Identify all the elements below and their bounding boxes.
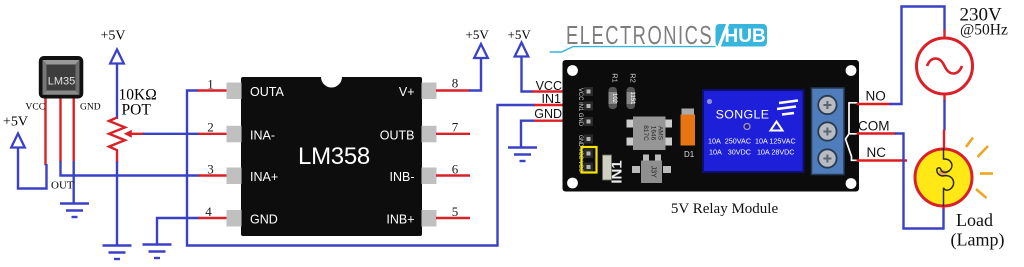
- pin number 6: [452, 162, 459, 177]
- svg-text:1646: 1646: [650, 126, 657, 141]
- svg-text:LM358: LM358: [298, 143, 370, 170]
- silk text IN1 (vertical): [609, 160, 626, 183]
- wire GND pin4 to ground (blue): [157, 218, 200, 244]
- optocoupler 817C: [627, 117, 673, 151]
- pin label OUTA: [250, 85, 284, 99]
- svg-text:GND: GND: [80, 103, 101, 113]
- op-amp LM358 body: [241, 77, 422, 236]
- lamp rays: [966, 138, 993, 199]
- label VCC (module pin): [536, 79, 562, 93]
- svg-text:D1: D1: [684, 150, 695, 159]
- power +5V arrow (relay VCC): [515, 43, 529, 57]
- svg-text:7: 7: [452, 120, 459, 135]
- pin label INA+: [250, 170, 278, 184]
- svg-text:J3Y: J3Y: [650, 166, 657, 178]
- pin pad 1: [227, 83, 242, 100]
- mounting hole top-right: [846, 65, 857, 76]
- ground (relay): [508, 148, 537, 162]
- label OUT: [51, 180, 74, 192]
- svg-text:4: 4: [205, 204, 212, 219]
- pin number 8: [452, 76, 459, 91]
- power +5V arrow (left): [11, 134, 25, 148]
- relay label SONGLE: [716, 108, 770, 122]
- svg-text:3: 3: [207, 162, 214, 177]
- pin number 5: [452, 204, 459, 219]
- wire pin5 stub (red): [436, 217, 470, 219]
- wire NO (red): [857, 103, 891, 105]
- svg-text:+5V: +5V: [466, 27, 490, 42]
- header pin IN1: [584, 102, 593, 111]
- svg-text:102: 102: [611, 93, 617, 104]
- svg-text:INB-: INB-: [390, 170, 415, 184]
- header pin aux2: [584, 149, 593, 158]
- label LM358: [298, 143, 370, 170]
- wire OUTA loop to IN1 (blue): [187, 91, 535, 246]
- diode D1 (orange): [681, 109, 696, 160]
- pin pad 3: [227, 168, 242, 185]
- LM35 sensor body: [39, 56, 84, 99]
- svg-text:POT: POT: [122, 102, 152, 119]
- wire +5V to relay VCC (blue then red): [522, 56, 587, 92]
- label +5V (pin8): [466, 27, 490, 42]
- svg-text:VCC IN1 GND: VCC IN1 GND: [577, 88, 584, 126]
- pin pad 4: [227, 210, 242, 227]
- svg-text:R1: R1: [611, 73, 620, 83]
- svg-text:SONGLE: SONGLE: [716, 108, 770, 122]
- ground (LM358 GND): [143, 245, 172, 259]
- wire pin4 stub (red): [199, 217, 229, 219]
- wire pin8 stub to +5V (red then blue): [436, 57, 481, 91]
- potentiometer 10K (zigzag): [109, 118, 144, 164]
- pin label INB+: [386, 213, 414, 227]
- svg-text:HUB: HUB: [725, 26, 766, 47]
- ground (LM35): [60, 204, 89, 218]
- resistor R1: [609, 73, 620, 109]
- mounting hole top-left: [567, 65, 578, 76]
- header pin GND: [584, 117, 593, 126]
- svg-text:INA-: INA-: [250, 128, 275, 142]
- svg-text:1151: 1151: [629, 92, 635, 106]
- relay logo triangle: [771, 122, 783, 131]
- wire +5V to VCC (blue): [18, 147, 47, 189]
- svg-text:5V Relay Module: 5V Relay Module: [671, 201, 779, 217]
- svg-text:LM35: LM35: [48, 76, 76, 88]
- svg-text:10A 30VDC 10A 28VDC: 10A 30VDC 10A 28VDC: [709, 148, 795, 157]
- label NC: [867, 145, 887, 160]
- svg-text:NC: NC: [867, 145, 887, 160]
- lamp load: [915, 148, 972, 207]
- relay module PCB: [563, 60, 860, 192]
- SECTION: relay module: [534, 60, 907, 217]
- wire pin1 stub (red): [198, 89, 229, 91]
- connector white strip: [603, 155, 612, 180]
- svg-text:Load: Load: [956, 210, 993, 230]
- label +5V (left): [3, 115, 28, 130]
- svg-text:IN1: IN1: [542, 92, 562, 106]
- silk text GND VCC VCC (vertical): [577, 135, 584, 172]
- svg-text:OUTB: OUTB: [380, 128, 415, 142]
- svg-text:817C: 817C: [642, 125, 649, 141]
- svg-text:1: 1: [207, 77, 214, 92]
- wire pot bottom to ground (blue): [116, 162, 118, 246]
- SECTION: logo: [550, 21, 768, 52]
- yellow highlight box: [582, 147, 597, 173]
- pin label INA-: [250, 128, 275, 142]
- svg-text:2: 2: [207, 120, 214, 135]
- wire pin3 stub (red): [199, 174, 229, 176]
- wire NC (red): [857, 159, 908, 161]
- wire COM to lamp (blue): [895, 134, 944, 229]
- svg-text:INB+: INB+: [386, 213, 414, 227]
- pin label OUTB: [380, 128, 415, 142]
- svg-text:OUT: OUT: [51, 180, 74, 192]
- label IN1 (module pin): [542, 92, 562, 106]
- svg-text:GND: GND: [534, 107, 562, 121]
- svg-text:NO: NO: [866, 89, 886, 104]
- wire AC source top stub (red): [943, 30, 945, 39]
- svg-text:R2: R2: [629, 73, 638, 83]
- SECTION: load area: [890, 5, 1008, 251]
- SECTION: LM358: [143, 27, 587, 258]
- label 230V @50Hz: [960, 5, 1008, 39]
- svg-text:V+: V+: [399, 85, 415, 99]
- svg-text:8: 8: [452, 76, 459, 91]
- pin number 1: [207, 77, 214, 92]
- logo HUB box: [716, 24, 768, 47]
- label COM: [858, 119, 890, 134]
- wire relay GND to ground (blue then red): [521, 121, 586, 147]
- pin number 2: [207, 120, 214, 135]
- svg-text:@50Hz: @50Hz: [960, 22, 1008, 39]
- wire LM35 GND pin (red): [72, 97, 74, 162]
- pin pad 7: [422, 126, 437, 143]
- relay ratings text: [708, 137, 796, 157]
- wire GND pin to ground (blue): [72, 161, 74, 203]
- pin pad 2: [227, 126, 242, 143]
- pin number 3: [207, 162, 214, 177]
- resistor R2: [627, 73, 638, 109]
- svg-text:INA+: INA+: [250, 170, 278, 184]
- label GND (LM35 pin): [80, 103, 101, 113]
- label VCC (LM35 pin): [26, 103, 46, 113]
- wire pot wiper to INA- (blue): [143, 133, 200, 135]
- mounting hole bottom-right: [846, 178, 857, 189]
- silk text VCC IN1 GND (vertical): [577, 88, 584, 126]
- AC source 230V: [917, 38, 973, 94]
- svg-text:10A 250VAC 10A 125VAC: 10A 250VAC 10A 125VAC: [708, 137, 796, 146]
- pin label INB-: [390, 170, 415, 184]
- label LM35: [48, 76, 76, 88]
- svg-text:+5V: +5V: [3, 115, 28, 130]
- logo underline: [550, 47, 716, 52]
- pin pad 5: [422, 210, 437, 227]
- wire AC to lamp (red-blue-red): [944, 94, 945, 209]
- svg-text:5: 5: [452, 204, 459, 219]
- SECTION: left sensor area: [3, 29, 200, 260]
- svg-text:6: 6: [452, 162, 459, 177]
- label Load (Lamp): [951, 210, 1005, 251]
- relay SONGLE (blue): [703, 90, 804, 172]
- relay logo bars: [777, 101, 798, 115]
- transistor J3Y: [632, 155, 671, 184]
- logo text ELECTRONICS: [566, 21, 713, 50]
- pin label V+: [399, 85, 415, 99]
- svg-text:VCC: VCC: [26, 103, 46, 113]
- svg-text:GND: GND: [250, 213, 278, 227]
- wire pin2 stub (red): [199, 133, 229, 135]
- label +5V (relay VCC): [508, 27, 532, 42]
- pin pad 8: [422, 83, 437, 100]
- svg-text:ELECTRONICS: ELECTRONICS: [566, 21, 713, 50]
- mounting hole bottom-left: [567, 178, 578, 189]
- header pin aux3: [584, 163, 593, 172]
- wire LM35 OUT pin (red): [59, 97, 61, 162]
- svg-text:+5V: +5V: [101, 29, 126, 44]
- wire pin7 stub (red): [436, 133, 470, 135]
- power +5V arrow (pot): [110, 50, 124, 64]
- ground (pot): [103, 246, 132, 260]
- caption 5V Relay Module: [671, 201, 779, 217]
- wire COM (red): [857, 132, 897, 134]
- label GND (module pin): [534, 107, 562, 121]
- pin number 4: [205, 204, 212, 219]
- svg-text:OUTA: OUTA: [250, 85, 284, 99]
- power +5V arrow (pin8): [474, 44, 488, 58]
- wire +5V to pot (blue): [116, 63, 118, 119]
- label 10K POT: [119, 87, 157, 119]
- relay contact symbol (white on board): [846, 103, 858, 161]
- wire pin6 stub (red): [436, 174, 470, 176]
- label +5V (pot): [101, 29, 126, 44]
- wire OUT to INA+ (blue): [61, 161, 200, 176]
- terminal block: [812, 88, 845, 175]
- svg-text:+5V: +5V: [508, 27, 532, 42]
- wire NO to AC source (blue): [890, 7, 945, 105]
- svg-text:AMS: AMS: [657, 126, 664, 141]
- header pin VCC: [584, 87, 593, 96]
- label NO: [866, 89, 886, 104]
- pin pad 6: [422, 168, 437, 185]
- svg-text:(Lamp): (Lamp): [951, 230, 1005, 251]
- pin number 7: [452, 120, 459, 135]
- pin label GND: [250, 213, 278, 227]
- header pin aux1: [584, 135, 593, 144]
- svg-text:COM: COM: [858, 119, 890, 134]
- wire IN1 (red part): [534, 104, 586, 106]
- wire LM35 VCC pin (red): [44, 97, 46, 166]
